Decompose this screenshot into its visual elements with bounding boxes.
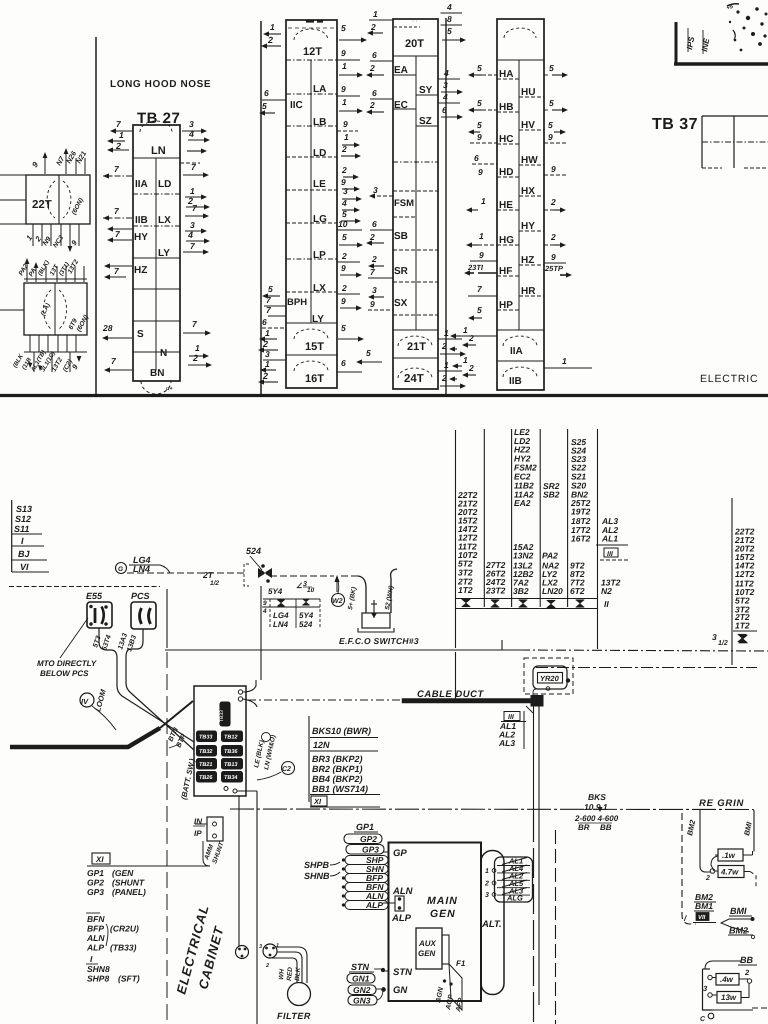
svg-text:1: 1	[463, 325, 468, 335]
svg-text:RE GRIN: RE GRIN	[699, 798, 745, 809]
svg-text:1/2: 1/2	[718, 639, 728, 647]
svg-text:LE: LE	[313, 179, 326, 190]
svg-text:5: 5	[477, 120, 482, 130]
svg-text:N: N	[160, 348, 167, 359]
node IV circle and LOOM	[80, 693, 94, 707]
svg-text:SZ: SZ	[419, 116, 432, 127]
svg-text:ALT.: ALT.	[481, 919, 502, 930]
svg-text:YR20: YR20	[540, 674, 560, 683]
svg-text:BKS10 (BWR): BKS10 (BWR)	[312, 726, 371, 736]
svg-text:BR2 (BKP1): BR2 (BKP1)	[312, 764, 363, 774]
svg-text:10.9.1: 10.9.1	[584, 802, 608, 812]
svg-text:ALP: ALP	[86, 943, 104, 953]
wires from IN IP	[195, 823, 207, 825]
svg-text:HW: HW	[521, 155, 538, 166]
svg-text:IIA: IIA	[510, 346, 523, 357]
svg-text:9: 9	[341, 263, 346, 273]
TB27 left arrows	[115, 130, 133, 132]
svg-text:6: 6	[372, 50, 377, 60]
svg-text:HF: HF	[499, 266, 512, 277]
svg-text:(PANEL): (PANEL)	[112, 887, 146, 897]
alternator bracket ALT	[481, 851, 504, 995]
svg-text:3: 3	[373, 185, 378, 195]
connector YR20 dashed box	[524, 658, 573, 694]
svg-text:AUX: AUX	[418, 939, 437, 948]
svg-text:1: 1	[444, 360, 449, 370]
svg-text:(TB33): (TB33)	[110, 943, 137, 953]
cal table LG4 LN4 5Y4 524	[263, 598, 320, 600]
svg-text:ALP: ALP	[365, 900, 383, 910]
svg-text:3: 3	[712, 632, 717, 642]
wire vertical from col A to cable duct	[455, 430, 457, 648]
svg-text:21T: 21T	[407, 341, 426, 353]
wire dashed to EFCO switch	[270, 575, 334, 577]
svg-text:1: 1	[373, 9, 378, 19]
svg-text:ALN: ALN	[392, 886, 414, 897]
svg-text:HD: HD	[499, 167, 513, 178]
svg-text:LD: LD	[313, 148, 326, 159]
svg-text:HV: HV	[521, 120, 535, 131]
svg-text:BKS: BKS	[588, 792, 606, 802]
svg-text:LY: LY	[158, 248, 170, 259]
wire list S13 S12 S11 left	[11, 500, 13, 572]
svg-text:GN1: GN1	[352, 974, 370, 984]
svg-text:2: 2	[441, 373, 447, 383]
battery switch box	[194, 686, 246, 796]
svg-text:13N2: 13N2	[513, 551, 534, 561]
svg-text:25TP: 25TP	[544, 264, 564, 273]
svg-text:5: 5	[262, 101, 267, 111]
svg-text:1T2: 1T2	[735, 621, 750, 631]
svg-text:SR: SR	[394, 266, 409, 277]
svg-text:2: 2	[262, 339, 268, 349]
wires from E55 PCS down	[99, 628, 117, 672]
svg-text:8: 8	[447, 14, 452, 24]
svg-text:VI: VI	[20, 562, 29, 572]
wire vertical x261 down from 524	[260, 650, 262, 680]
svg-text:LN: LN	[151, 145, 166, 157]
svg-text:IP: IP	[194, 829, 202, 838]
svg-text:XI: XI	[313, 797, 322, 806]
corner frame top right	[675, 22, 678, 65]
svg-text:1: 1	[485, 868, 489, 875]
svg-text:1T2: 1T2	[458, 585, 473, 595]
pin stack SHP SHN BFP BFN ALN ALP	[345, 856, 388, 865]
svg-text:5: 5	[342, 209, 347, 219]
terminal strip 20T-24T body	[393, 19, 438, 389]
svg-text:9: 9	[477, 132, 482, 142]
connector circles filter area	[236, 946, 249, 959]
svg-text:BFN: BFN	[87, 914, 105, 924]
svg-text:ELECTRIC: ELECTRIC	[700, 373, 758, 385]
wire stubs left of 11B group	[0, 309, 24, 311]
svg-text:2: 2	[484, 881, 489, 888]
svg-text:9: 9	[478, 167, 483, 177]
svg-text:3: 3	[189, 119, 194, 129]
svg-text:9: 9	[551, 252, 556, 262]
labels III AL1 AL2 AL3 below duct	[504, 712, 520, 721]
svg-text:2: 2	[468, 333, 474, 343]
svg-text:SX: SX	[394, 298, 408, 309]
svg-text:PA2: PA2	[542, 551, 558, 561]
wire stubs left of 22T	[0, 174, 26, 176]
svg-text:9: 9	[263, 600, 267, 607]
cable duct	[248, 699, 400, 701]
svg-text:HX: HX	[521, 186, 535, 197]
svg-text:RED: RED	[286, 967, 294, 982]
svg-text:BM1: BM1	[695, 901, 713, 911]
boxed XI electrical cabinet	[92, 853, 110, 864]
svg-text:4: 4	[341, 198, 347, 208]
svg-text:3: 3	[443, 80, 448, 90]
svg-text:N2: N2	[601, 586, 612, 596]
bb block bottom wire	[712, 1009, 753, 1011]
svg-text:19T2: 19T2	[571, 507, 591, 517]
svg-text:SHP8: SHP8	[87, 974, 109, 984]
svg-text:13w: 13w	[721, 993, 737, 1002]
svg-text:SHNB: SHNB	[304, 871, 330, 881]
svg-text:LY: LY	[312, 314, 324, 325]
section divider line	[0, 394, 768, 397]
svg-text:5: 5	[549, 98, 554, 108]
strip4 center wire	[518, 60, 520, 330]
right wire label column	[731, 498, 733, 665]
svg-text:2: 2	[744, 968, 750, 977]
svg-text:3: 3	[265, 349, 270, 359]
svg-text:BB: BB	[600, 823, 612, 832]
svg-text:IIB: IIB	[509, 376, 522, 387]
svg-text:1: 1	[342, 97, 347, 107]
relay 22T	[26, 175, 90, 224]
svg-text:VII: VII	[698, 914, 706, 921]
svg-text:HU: HU	[521, 87, 535, 98]
svg-text:GP3: GP3	[87, 887, 104, 897]
wire to resistor group	[700, 810, 711, 872]
strip2 center wire	[310, 60, 312, 323]
svg-text:2: 2	[369, 63, 375, 73]
svg-text:GP: GP	[393, 848, 407, 859]
wires BTN BTP to battery switch	[117, 672, 194, 742]
svg-text:HE: HE	[499, 200, 513, 211]
svg-text:GP1: GP1	[87, 868, 104, 878]
svg-text:TB34: TB34	[224, 775, 237, 781]
svg-text:1: 1	[119, 130, 124, 140]
resistor .4w	[716, 974, 739, 986]
switch EFCO #3	[358, 576, 366, 613]
svg-text:10: 10	[338, 219, 348, 229]
svg-text:TB21: TB21	[199, 762, 212, 768]
svg-text:TB26: TB26	[199, 775, 213, 781]
svg-text:1: 1	[190, 186, 195, 196]
svg-text:IIA: IIA	[135, 179, 148, 190]
svg-text:12N: 12N	[313, 740, 330, 750]
connector C2	[282, 762, 295, 775]
svg-text:TB32: TB32	[199, 749, 212, 755]
svg-text:II: II	[604, 599, 609, 609]
svg-text:1: 1	[276, 943, 279, 949]
wire vertical border left of TB27 area	[95, 37, 97, 394]
svg-text:C2: C2	[282, 766, 291, 773]
svg-text:BB: BB	[740, 955, 753, 965]
svg-text:4: 4	[188, 129, 194, 139]
resistor 13w	[717, 992, 741, 1004]
svg-text:3: 3	[372, 285, 377, 295]
svg-text:9: 9	[341, 48, 346, 58]
svg-text:GP3: GP3	[362, 845, 379, 855]
svg-text:15T: 15T	[305, 341, 324, 353]
svg-text:(SFT): (SFT)	[118, 974, 140, 984]
svg-text:5: 5	[477, 63, 482, 73]
svg-text:5: 5	[366, 348, 371, 358]
wire vertical border between 20T and HA columns	[445, 18, 447, 394]
main bus BKS y809	[230, 808, 753, 811]
svg-text:LD: LD	[158, 179, 171, 190]
svg-text:2: 2	[550, 232, 556, 242]
svg-text:∠: ∠	[296, 582, 303, 590]
connector W2	[332, 594, 345, 607]
svg-text:LA: LA	[313, 84, 326, 95]
TB27 bottom dashed semicircle	[141, 381, 171, 394]
svg-text:.4w: .4w	[720, 975, 734, 984]
svg-text:GP2: GP2	[360, 834, 377, 844]
svg-text:1: 1	[479, 231, 484, 241]
svg-text:FSM: FSM	[394, 198, 414, 209]
svg-text:1: 1	[463, 355, 468, 365]
svg-text:524: 524	[299, 620, 313, 629]
svg-text:9: 9	[341, 84, 346, 94]
svg-text:1: 1	[195, 343, 200, 353]
svg-text:HZ: HZ	[134, 265, 147, 276]
svg-text:6T2: 6T2	[570, 586, 585, 596]
svg-text:5: 5	[341, 323, 346, 333]
svg-text:S13: S13	[16, 504, 32, 514]
svg-text:2: 2	[550, 197, 556, 207]
svg-text:TB 37: TB 37	[652, 116, 698, 133]
battery switch inner terminal top	[220, 702, 230, 726]
svg-text:1: 1	[270, 22, 275, 32]
svg-text:LG: LG	[313, 214, 327, 225]
terminal block TB37 body	[702, 115, 768, 117]
svg-text:IN: IN	[194, 817, 202, 826]
svg-text:S11: S11	[14, 524, 29, 534]
svg-text:TB33: TB33	[199, 735, 212, 741]
wire BM2 dashed with corner	[682, 813, 696, 924]
svg-text:2: 2	[341, 251, 347, 261]
svg-text:2: 2	[265, 963, 269, 969]
battery switch terminal grid	[197, 731, 217, 742]
svg-text:HY: HY	[134, 232, 148, 243]
svg-text:XI: XI	[95, 855, 104, 864]
strip3 center wire	[415, 56, 417, 330]
svg-text:BFP: BFP	[87, 924, 104, 934]
svg-text:HC: HC	[499, 134, 513, 145]
svg-text:BN: BN	[150, 368, 164, 379]
svg-text:2: 2	[468, 363, 474, 373]
svg-text:MTO DIRECTLY: MTO DIRECTLY	[37, 659, 97, 668]
svg-text:4: 4	[262, 608, 267, 615]
svg-text:9: 9	[341, 296, 346, 306]
svg-text:GP1: GP1	[356, 822, 374, 832]
AL pin circles	[492, 869, 496, 873]
svg-text:GN3: GN3	[353, 996, 371, 1006]
svg-text:SB: SB	[394, 231, 408, 242]
svg-text:2T: 2T	[202, 570, 214, 580]
svg-text:LONG HOOD NOSE: LONG HOOD NOSE	[110, 79, 211, 90]
svg-text:AL3: AL3	[498, 738, 515, 748]
node arrow up	[336, 579, 338, 592]
svg-text:4: 4	[443, 68, 449, 78]
wire label column lines	[483, 429, 485, 607]
wire ticks below 22T	[32, 224, 34, 246]
svg-text:S12: S12	[15, 514, 31, 524]
svg-text:.1w: .1w	[722, 851, 736, 860]
label MTO DIRECTLY BELOW PCS	[60, 618, 88, 658]
svg-text:WH: WH	[278, 968, 286, 980]
wire pair from cable duct down	[533, 706, 535, 812]
svg-text:4.7w: 4.7w	[720, 868, 739, 877]
generator MAIN GEN box	[389, 843, 482, 1002]
svg-text:1: 1	[344, 132, 349, 142]
svg-text:HZ: HZ	[521, 255, 534, 266]
svg-text:BMI: BMI	[730, 906, 747, 916]
svg-text:E.F.C.O SWITCH#3: E.F.C.O SWITCH#3	[339, 636, 419, 646]
svg-text:HB: HB	[499, 102, 513, 113]
wire vertical battery to connector	[238, 796, 240, 946]
TB27 center wire	[155, 158, 157, 370]
svg-text:5: 5	[548, 120, 553, 130]
svg-text:2: 2	[369, 100, 375, 110]
svg-text:2: 2	[441, 341, 447, 351]
svg-text:3B2: 3B2	[513, 586, 529, 596]
svg-text:ˈ ˈ: ˈ ˈ	[412, 20, 418, 27]
svg-text:BLK: BLK	[294, 966, 302, 981]
svg-text:TB36: TB36	[224, 749, 238, 755]
wire down from battery area	[256, 791, 258, 1024]
svg-text:20T: 20T	[405, 38, 424, 50]
svg-text:u+: u+	[166, 386, 173, 392]
svg-text:6: 6	[264, 88, 269, 98]
svg-text:2: 2	[267, 35, 273, 45]
wire list BKS10	[308, 716, 310, 802]
svg-text:3: 3	[485, 892, 489, 899]
svg-text:2-600 4-600: 2-600 4-600	[574, 814, 619, 823]
svg-text:BB1 (WS714): BB1 (WS714)	[312, 784, 368, 794]
svg-text:5: 5	[268, 284, 273, 294]
svg-text:5: 5	[342, 232, 347, 242]
svg-text:LX: LX	[313, 283, 326, 294]
svg-text:1: 1	[481, 196, 486, 206]
svg-text:6: 6	[372, 88, 377, 98]
svg-text:16T2: 16T2	[571, 534, 591, 544]
svg-text:1: 1	[265, 328, 270, 338]
svg-text:5: 5	[447, 26, 452, 36]
svg-text:PCS: PCS	[131, 591, 150, 601]
wire arrows above 22T	[44, 156, 46, 174]
wire stub x502	[501, 640, 503, 650]
svg-text:5Y4: 5Y4	[268, 587, 283, 596]
svg-text:1: 1	[562, 356, 567, 366]
svg-text:ALP: ALP	[391, 913, 412, 924]
terminal strip 12T-16T body	[286, 20, 337, 388]
svg-text:EA: EA	[394, 65, 408, 76]
svg-text:6: 6	[442, 105, 447, 115]
svg-text:LP: LP	[313, 250, 326, 261]
svg-text:9: 9	[548, 132, 553, 142]
svg-text:3: 3	[259, 944, 262, 950]
svg-text:SHPB: SHPB	[304, 860, 330, 870]
svg-text:EC: EC	[394, 100, 408, 111]
svg-text:(GEN: (GEN	[112, 868, 134, 878]
svg-text:23T2: 23T2	[485, 586, 506, 596]
wire vertical border right of TB27 area	[260, 21, 262, 394]
svg-text:24T: 24T	[404, 373, 424, 385]
svg-text:1: 1	[265, 359, 270, 369]
wires WH RED BLK to filter	[276, 947, 307, 983]
svg-text:TB33: TB33	[219, 710, 225, 722]
wire arrows above 11B group	[26, 262, 28, 282]
svg-text:5: 5	[549, 63, 554, 73]
svg-text:ALN: ALN	[86, 933, 105, 943]
svg-text:SB2: SB2	[543, 490, 560, 500]
svg-text:4: 4	[446, 2, 452, 12]
wire from 524 down	[260, 586, 262, 650]
battery box top terminals	[238, 690, 242, 694]
svg-text:HY: HY	[521, 221, 535, 232]
svg-text:2: 2	[341, 144, 347, 154]
svg-text:1: 1	[444, 328, 449, 338]
svg-text:6: 6	[341, 358, 346, 368]
svg-text:BM2: BM2	[729, 926, 748, 936]
svg-text:3: 3	[190, 220, 195, 230]
svg-text:IIB: IIB	[135, 215, 148, 226]
wire labels below 11B group	[29, 335, 31, 352]
svg-text:12T2: 12T2	[735, 569, 755, 579]
svg-text:2: 2	[115, 141, 121, 151]
svg-text:FILTER: FILTER	[277, 1011, 311, 1021]
svg-text:BPH: BPH	[287, 297, 307, 308]
svg-text:2: 2	[341, 283, 347, 293]
svg-text:HP: HP	[499, 300, 513, 311]
svg-text:MAIN: MAIN	[427, 895, 458, 907]
svg-text:LX: LX	[158, 215, 171, 226]
svg-text:16T: 16T	[305, 373, 324, 385]
svg-text:LG4: LG4	[273, 611, 289, 620]
svg-text:LN20: LN20	[542, 586, 563, 596]
svg-text:10: 10	[307, 587, 315, 594]
svg-text:GP2: GP2	[87, 878, 104, 888]
svg-text:4: 4	[187, 230, 193, 240]
svg-text:(SHUNT: (SHUNT	[112, 878, 145, 888]
svg-text:EA2: EA2	[514, 498, 531, 508]
generator AUX GEN box	[416, 928, 442, 969]
svg-text:5: 5	[477, 98, 482, 108]
svg-text:BELOW PCS: BELOW PCS	[40, 669, 89, 678]
svg-text:4: 4	[442, 92, 448, 102]
svg-text:LN4: LN4	[273, 620, 289, 629]
resistor 4.7w	[718, 866, 744, 878]
svg-text:HR: HR	[521, 286, 536, 297]
svg-text:12T: 12T	[303, 46, 322, 58]
svg-text:GN: GN	[393, 985, 408, 996]
svg-text:BR: BR	[578, 823, 590, 832]
svg-text:2: 2	[371, 254, 377, 264]
dashes right below bus	[536, 667, 757, 669]
svg-text:AL1: AL1	[601, 534, 618, 544]
svg-text:28: 28	[102, 323, 113, 333]
wire vertical x168 electrical cabinet left	[166, 589, 168, 648]
svg-text:(CR2U): (CR2U)	[110, 924, 139, 934]
connector stack AL	[495, 857, 533, 902]
